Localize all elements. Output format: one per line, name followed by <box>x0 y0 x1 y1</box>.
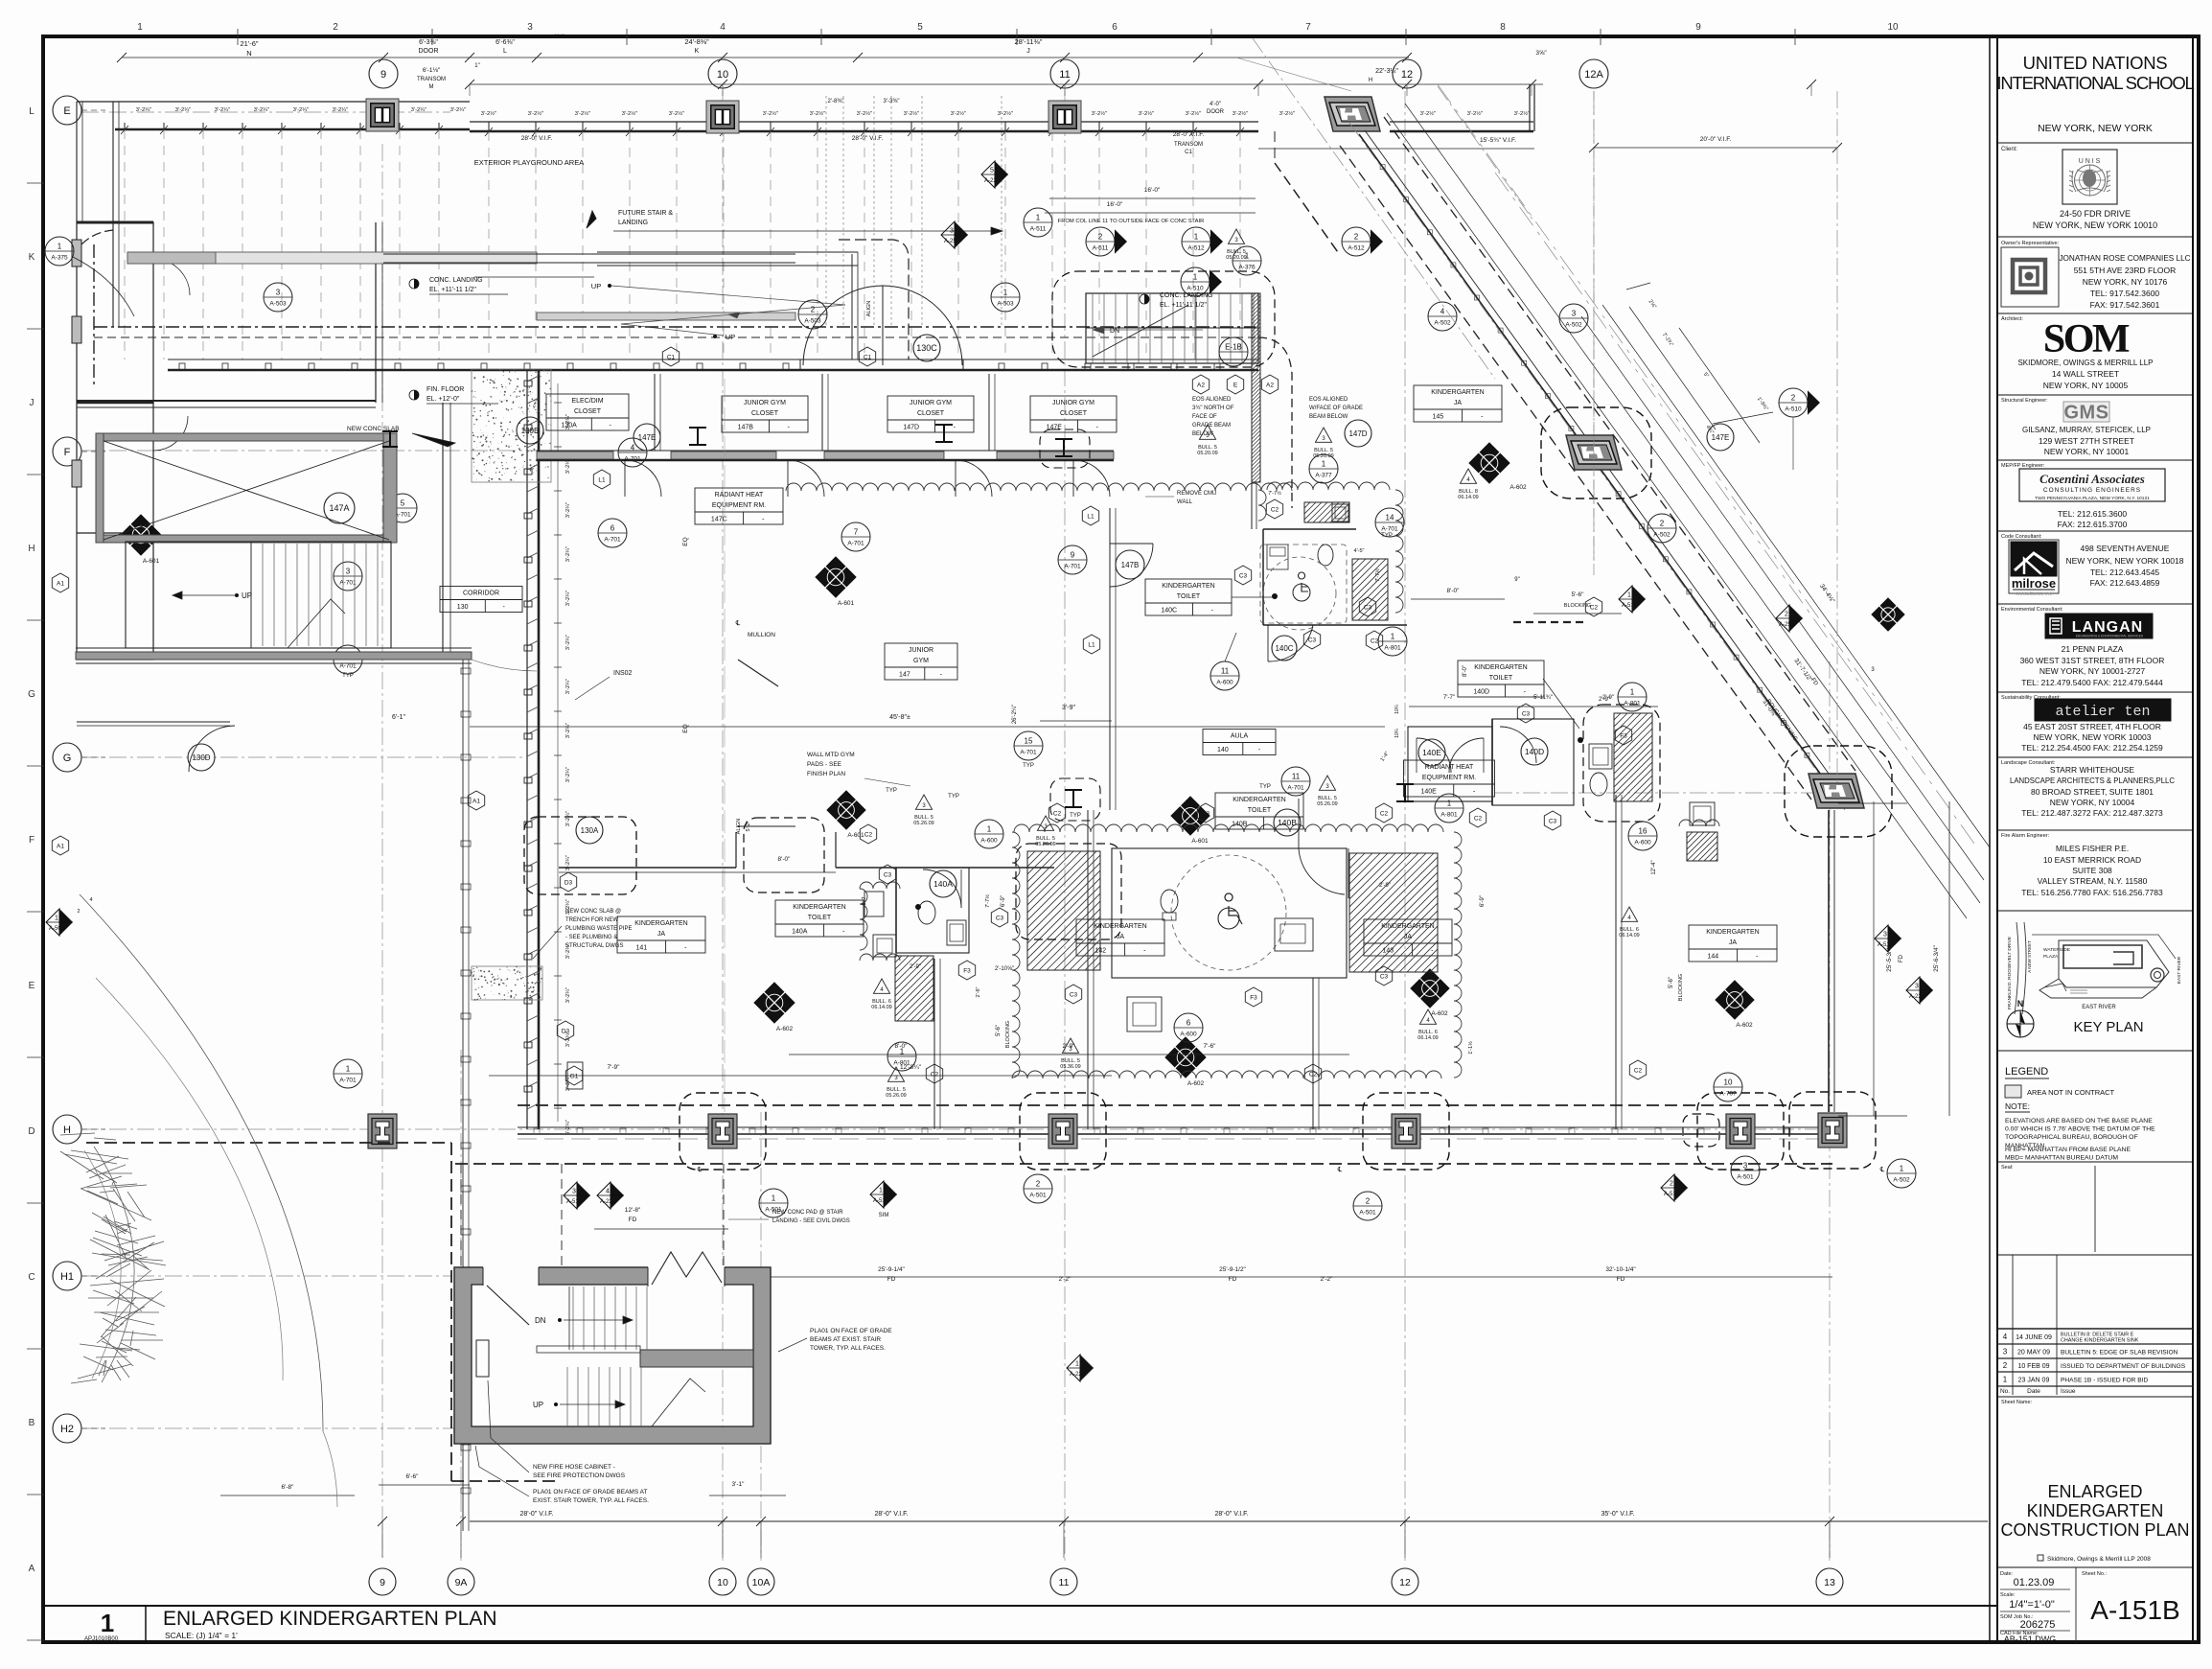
svg-text:MEP/FP Engineer:: MEP/FP Engineer: <box>2001 463 2045 469</box>
svg-text:NEW CONC PAD @ STAIR: NEW CONC PAD @ STAIR <box>772 1210 843 1216</box>
svg-text:C1: C1 <box>864 354 872 360</box>
svg-text:SOM: SOM <box>2043 317 2130 361</box>
svg-text:05.20.09: 05.20.09 <box>1226 255 1246 261</box>
svg-text:FAX: 212.615.3700: FAX: 212.615.3700 <box>2058 520 2128 529</box>
svg-text:06.14.09: 06.14.09 <box>1458 495 1478 500</box>
svg-text:1: 1 <box>1322 460 1326 469</box>
svg-text:A-601: A-601 <box>143 558 160 565</box>
svg-text:SIM: SIM <box>879 1213 889 1218</box>
svg-text:EQUIPMENT RM.: EQUIPMENT RM. <box>712 502 766 509</box>
svg-text:16'-0": 16'-0" <box>1107 201 1123 208</box>
svg-text:5: 5 <box>401 499 405 508</box>
svg-text:W/FACE OF GRADE: W/FACE OF GRADE <box>1309 406 1363 411</box>
svg-text:TEL: 212.643.4545: TEL: 212.643.4545 <box>2090 568 2160 577</box>
svg-text:360 WEST 31ST STREET, 8TH FLOO: 360 WEST 31ST STREET, 8TH FLOOR <box>2020 656 2165 665</box>
svg-text:45'-8"±: 45'-8"± <box>889 714 910 721</box>
svg-text:A-510: A-510 <box>1187 286 1204 292</box>
svg-text:A-701: A-701 <box>339 1078 357 1084</box>
svg-text:21 PENN PLAZA: 21 PENN PLAZA <box>2062 644 2124 654</box>
svg-text:147D: 147D <box>903 425 919 431</box>
svg-text:UP: UP <box>242 591 252 600</box>
svg-text:NEW YORK, NEW YORK 10018: NEW YORK, NEW YORK 10018 <box>2066 556 2184 566</box>
svg-text:DN: DN <box>1110 328 1119 335</box>
svg-text:PLAZA: PLAZA <box>2043 954 2059 960</box>
svg-text:FUTURE STAIR &: FUTURE STAIR & <box>618 210 673 217</box>
svg-text:2: 2 <box>2003 1361 2008 1370</box>
svg-text:12: 12 <box>1399 1577 1411 1588</box>
svg-text:A-221: A-221 <box>984 178 1001 184</box>
svg-text:SUITE 308: SUITE 308 <box>2072 866 2112 875</box>
svg-text:28'-0" V.I.F.: 28'-0" V.I.F. <box>519 1511 553 1518</box>
svg-text:F3: F3 <box>963 967 971 974</box>
svg-text:26'-2¼": 26'-2¼" <box>1012 705 1018 724</box>
svg-text:12'-8¼": 12'-8¼" <box>900 1064 922 1071</box>
svg-text:147: 147 <box>899 672 910 679</box>
svg-text:A2: A2 <box>1266 382 1274 388</box>
svg-text:N: N <box>246 49 251 58</box>
svg-text:9A: 9A <box>455 1577 468 1588</box>
svg-text:TRANSOM: TRANSOM <box>1174 142 1203 148</box>
svg-text:130D: 130D <box>192 753 210 762</box>
svg-text:Date:: Date: <box>2000 1571 2014 1577</box>
svg-text:3'-2¼": 3'-2¼" <box>565 679 571 694</box>
svg-text:10A: 10A <box>752 1577 771 1588</box>
svg-text:2: 2 <box>1366 1197 1371 1206</box>
svg-text:3'-2¼": 3'-2¼" <box>175 107 191 113</box>
svg-text:05.26.09: 05.26.09 <box>886 1093 906 1099</box>
svg-text:REMOVE CMU: REMOVE CMU <box>1177 491 1216 497</box>
svg-text:35'-0" V.I.F.: 35'-0" V.I.F. <box>1601 1511 1634 1518</box>
svg-text:3: 3 <box>346 568 351 576</box>
svg-text:PADS - SEE: PADS - SEE <box>807 761 842 768</box>
svg-text:TYP: TYP <box>948 794 959 800</box>
svg-text:130A: 130A <box>581 826 599 835</box>
svg-text:A-600: A-600 <box>1634 840 1651 846</box>
svg-text:3'-2¼": 3'-2¼" <box>411 107 426 113</box>
svg-text:1: 1 <box>58 243 62 251</box>
svg-text:WALL: WALL <box>1177 499 1193 505</box>
svg-text:1: 1 <box>1447 800 1452 808</box>
svg-text:A1: A1 <box>57 580 64 587</box>
svg-text:C3: C3 <box>1308 637 1317 643</box>
svg-text:APJ1010B00: APJ1010B00 <box>84 1636 119 1642</box>
svg-text:141: 141 <box>635 945 647 952</box>
svg-text:4: 4 <box>89 897 92 903</box>
svg-text:6: 6 <box>1187 1019 1191 1028</box>
svg-text:NEW YORK, NY 10004: NEW YORK, NY 10004 <box>2050 798 2135 807</box>
svg-text:3'-2½": 3'-2½" <box>481 110 496 117</box>
svg-text:C2: C2 <box>864 831 873 838</box>
svg-text:1'-1½: 1'-1½ <box>1467 1041 1474 1055</box>
svg-text:4: 4 <box>720 22 726 33</box>
svg-text:A-701: A-701 <box>604 537 621 544</box>
svg-text:A-701: A-701 <box>339 580 357 587</box>
svg-text:A-221: A-221 <box>1909 994 1925 1000</box>
svg-text:KINDERGARTEN: KINDERGARTEN <box>1381 923 1435 930</box>
svg-text:SKIDMORE, OWINGS & MERRILL LLP: SKIDMORE, OWINGS & MERRILL LLP <box>2017 359 2153 367</box>
svg-text:L: L <box>29 106 35 117</box>
svg-text:CLOSET: CLOSET <box>1060 410 1088 417</box>
svg-text:2: 2 <box>1791 394 1796 403</box>
svg-text:C2: C2 <box>1309 1071 1318 1078</box>
svg-text:BLOCKING: BLOCKING <box>1678 974 1684 1001</box>
svg-text:3⅝": 3⅝" <box>1535 50 1547 57</box>
svg-text:AB-151.DWG: AB-151.DWG <box>2004 1634 2057 1644</box>
svg-text:A1: A1 <box>472 798 480 804</box>
svg-text:01.23.09: 01.23.09 <box>2014 1577 2055 1588</box>
svg-text:A-376: A-376 <box>1238 265 1256 271</box>
svg-text:INS02: INS02 <box>613 670 633 677</box>
svg-text:147C: 147C <box>711 517 727 523</box>
svg-text:RADIANT HEAT: RADIANT HEAT <box>715 492 764 498</box>
svg-text:A-512: A-512 <box>1878 942 1894 948</box>
svg-text:A NEW STREET: A NEW STREET <box>2027 940 2032 973</box>
svg-text:GYM: GYM <box>913 658 929 664</box>
svg-text:A-70?: A-70? <box>1719 1091 1737 1098</box>
svg-text:05.20.09: 05.20.09 <box>1313 453 1333 459</box>
svg-text:3'-2½": 3'-2½" <box>669 110 684 117</box>
svg-text:A-512: A-512 <box>1187 245 1205 252</box>
svg-text:CONSTRUCTION PLAN: CONSTRUCTION PLAN <box>2000 1520 2189 1540</box>
svg-text:145: 145 <box>1432 414 1443 421</box>
svg-text:STARR WHITEHOUSE: STARR WHITEHOUSE <box>2050 765 2134 775</box>
svg-text:C3: C3 <box>1522 710 1531 717</box>
svg-text:3'-2½": 3'-2½" <box>1233 110 1248 117</box>
svg-text:06.14.09: 06.14.09 <box>871 1005 891 1010</box>
svg-text:45 EAST 20ST STREET, 4TH FLOOR: 45 EAST 20ST STREET, 4TH FLOOR <box>2023 722 2161 731</box>
svg-text:BELOW: BELOW <box>1192 431 1213 437</box>
svg-text:A-513: A-513 <box>566 1199 583 1205</box>
svg-text:12: 12 <box>1401 69 1413 81</box>
svg-text:10: 10 <box>717 69 728 81</box>
svg-text:Sheet No.:: Sheet No.: <box>2082 1571 2107 1577</box>
svg-text:3'-2¼": 3'-2¼" <box>450 107 466 113</box>
svg-text:JA: JA <box>1454 400 1463 406</box>
svg-text:DOOR: DOOR <box>1207 109 1225 115</box>
svg-text:C2: C2 <box>1590 604 1599 611</box>
svg-text:129 WEST 27TH STREET: 129 WEST 27TH STREET <box>2039 436 2134 446</box>
svg-text:140E: 140E <box>1420 789 1437 796</box>
svg-text:2'-9": 2'-9" <box>1379 883 1391 889</box>
svg-text:2: 2 <box>1354 233 1359 242</box>
svg-text:KINDERGARTEN: KINDERGARTEN <box>634 920 688 927</box>
svg-text:A-501: A-501 <box>1029 1193 1047 1199</box>
svg-text:28'-0" V.I.F.: 28'-0" V.I.F. <box>521 135 553 142</box>
svg-text:Structural Engineer:: Structural Engineer: <box>2001 398 2048 404</box>
svg-text:TOILET: TOILET <box>1177 593 1201 600</box>
svg-text:2'-2": 2'-2" <box>1059 1276 1072 1283</box>
svg-text:TYP: TYP <box>1259 784 1271 790</box>
svg-text:AREA NOT IN CONTRACT: AREA NOT IN CONTRACT <box>2027 1088 2115 1097</box>
svg-text:8'-0": 8'-0" <box>778 856 792 863</box>
svg-text:TRENCH FOR NEW: TRENCH FOR NEW <box>565 917 618 923</box>
svg-text:NEW CONC SLAB @: NEW CONC SLAB @ <box>565 909 621 915</box>
svg-text:CONC. LANDING: CONC. LANDING <box>1160 292 1213 299</box>
svg-text:FD: FD <box>1617 1276 1625 1283</box>
svg-text:A-375: A-375 <box>51 255 68 262</box>
svg-text:ELEC/DIM: ELEC/DIM <box>571 398 603 405</box>
svg-text:FD: FD <box>887 1276 896 1283</box>
svg-text:F3: F3 <box>1620 732 1627 739</box>
svg-text:ALIGN: ALIGN <box>866 301 872 317</box>
svg-text:K: K <box>29 252 35 263</box>
svg-text:A-701: A-701 <box>624 456 641 463</box>
svg-text:Seal:: Seal: <box>2001 1165 2014 1171</box>
svg-text:3'-2¼": 3'-2¼" <box>565 546 571 562</box>
svg-text:EAST RIVER: EAST RIVER <box>2082 1005 2116 1010</box>
svg-text:A-503: A-503 <box>269 301 287 308</box>
svg-text:2: 2 <box>333 22 338 33</box>
svg-text:A-511: A-511 <box>1030 226 1047 233</box>
svg-text:TEL: 516.256.7780 FAX: 516.25: TEL: 516.256.7780 FAX: 516.256.7783 <box>2021 888 2163 897</box>
svg-text:3: 3 <box>2003 1348 2008 1356</box>
svg-text:U N I S: U N I S <box>2079 158 2101 165</box>
svg-text:H2: H2 <box>60 1424 74 1435</box>
svg-text:EOS ALIGNED: EOS ALIGNED <box>1192 397 1232 403</box>
svg-text:21'-6": 21'-6" <box>240 39 258 48</box>
svg-text:3: 3 <box>572 1189 576 1195</box>
svg-text:1: 1 <box>1391 633 1395 641</box>
svg-text:A-513: A-513 <box>1622 603 1638 609</box>
svg-text:4'-5": 4'-5" <box>1354 548 1365 554</box>
svg-text:14 WALL STREET: 14 WALL STREET <box>2052 369 2119 379</box>
svg-text:A-512: A-512 <box>1348 245 1365 252</box>
svg-text:A: A <box>29 1564 35 1574</box>
svg-text:7'-6": 7'-6" <box>1204 1043 1217 1050</box>
svg-text:Cosentini Associates: Cosentini Associates <box>2039 472 2145 486</box>
svg-text:atelier ten: atelier ten <box>2055 704 2150 720</box>
svg-text:144: 144 <box>1707 954 1718 961</box>
svg-text:3'-2¼": 3'-2¼" <box>565 811 571 826</box>
svg-text:140: 140 <box>1217 747 1229 753</box>
svg-text:147E: 147E <box>1712 433 1730 442</box>
svg-text:10¼: 10¼ <box>1394 704 1400 714</box>
svg-text:142: 142 <box>1094 948 1106 955</box>
svg-text:EL. +11'-11 1/2": EL. +11'-11 1/2" <box>1160 302 1207 309</box>
svg-text:FD: FD <box>1899 954 1904 962</box>
svg-text:1: 1 <box>1245 252 1250 261</box>
svg-text:C: C <box>28 1272 35 1283</box>
svg-text:LANDSCAPE ARCHITECTS & PLANNER: LANDSCAPE ARCHITECTS & PLANNERS,PLLC <box>2010 777 2175 785</box>
svg-text:℄: ℄ <box>697 1167 703 1173</box>
svg-text:H: H <box>1369 78 1372 83</box>
svg-text:FAX: 212.643.4859: FAX: 212.643.4859 <box>2090 578 2160 588</box>
svg-text:9: 9 <box>380 69 386 81</box>
svg-text:06.14.09: 06.14.09 <box>1619 933 1639 939</box>
svg-text:2: 2 <box>1660 520 1665 528</box>
svg-text:3'-2¼": 3'-2¼" <box>293 107 309 113</box>
svg-text:A-510: A-510 <box>1785 406 1802 413</box>
svg-text:L: L <box>503 48 507 55</box>
svg-text:130: 130 <box>457 604 469 611</box>
svg-text:CLOSET: CLOSET <box>574 408 602 415</box>
svg-text:Skidmore, Owings & Merrill LLP: Skidmore, Owings & Merrill LLP 2008 <box>2047 1556 2151 1563</box>
svg-text:9": 9" <box>1514 577 1519 583</box>
svg-text:7: 7 <box>854 528 859 537</box>
svg-text:6: 6 <box>1112 22 1118 33</box>
svg-text:A-501: A-501 <box>1737 1174 1754 1181</box>
svg-text:EQUIPMENT RM.: EQUIPMENT RM. <box>1422 775 1476 781</box>
svg-text:AULA: AULA <box>1231 733 1249 740</box>
svg-text:C1: C1 <box>667 354 676 360</box>
svg-text:14 JUNE 09: 14 JUNE 09 <box>2016 1334 2052 1341</box>
svg-text:BEAMS AT EXIST. STAIR: BEAMS AT EXIST. STAIR <box>810 1336 881 1343</box>
svg-text:Sheet Name:: Sheet Name: <box>2001 1400 2033 1405</box>
svg-text:Owner's Representative:: Owner's Representative: <box>2001 241 2060 246</box>
svg-text:1: 1 <box>987 825 992 834</box>
svg-text:10: 10 <box>717 1577 728 1588</box>
svg-text:PLA01 ON FACE OF GRADE BEAMS A: PLA01 ON FACE OF GRADE BEAMS AT <box>533 1489 647 1495</box>
svg-text:FD: FD <box>1229 1276 1237 1283</box>
svg-text:2'-10⅝": 2'-10⅝" <box>995 966 1014 972</box>
svg-text:1: 1 <box>2003 1376 2008 1384</box>
svg-text:SEE FIRE PROTECTION DWGS: SEE FIRE PROTECTION DWGS <box>533 1472 626 1479</box>
svg-text:N: N <box>2017 999 2024 1008</box>
svg-text:KINDERGARTEN: KINDERGARTEN <box>1706 929 1760 936</box>
svg-text:MBD= MANHATTAN BUREAU DATUM: MBD= MANHATTAN BUREAU DATUM <box>2005 1155 2118 1162</box>
svg-text:FRANKLIN D. ROOSEVELT DRIVE: FRANKLIN D. ROOSEVELT DRIVE <box>2007 937 2013 1009</box>
svg-text:20 MAY 09: 20 MAY 09 <box>2017 1350 2050 1356</box>
svg-text:130B: 130B <box>521 427 540 435</box>
svg-text:KINDERGARTEN: KINDERGARTEN <box>1474 664 1528 671</box>
svg-text:VALLEY STREAM, N.Y. 11580: VALLEY STREAM, N.Y. 11580 <box>2038 876 2148 886</box>
svg-text:H1: H1 <box>60 1271 74 1283</box>
svg-text:A-602: A-602 <box>1187 1080 1205 1087</box>
svg-text:E: E <box>63 105 70 117</box>
svg-text:KINDERGARTEN: KINDERGARTEN <box>1094 923 1147 930</box>
svg-text:3'-2½": 3'-2½" <box>1514 110 1530 117</box>
svg-text:3'-2½": 3'-2½" <box>951 110 966 117</box>
svg-text:A-221: A-221 <box>600 1199 616 1205</box>
svg-text:KINDERGARTEN: KINDERGARTEN <box>1233 797 1286 803</box>
svg-text:A-502: A-502 <box>49 926 65 932</box>
svg-text:10¼: 10¼ <box>1394 728 1400 738</box>
svg-text:JONATHAN ROSE COMPANIES LLC: JONATHAN ROSE COMPANIES LLC <box>2059 254 2190 263</box>
svg-text:CLOSET: CLOSET <box>751 410 779 417</box>
svg-text:EOS ALIGNED: EOS ALIGNED <box>1309 397 1348 403</box>
svg-text:JA: JA <box>657 931 666 938</box>
svg-text:FACE OF: FACE OF <box>1192 414 1217 420</box>
svg-text:TOILET: TOILET <box>1248 807 1272 814</box>
svg-text:NEW YORK, NY 10001: NEW YORK, NY 10001 <box>2044 447 2130 456</box>
svg-text:1: 1 <box>1075 1361 1079 1368</box>
svg-text:11: 11 <box>1059 69 1070 81</box>
svg-text:TEL: 212.254.4500 FAX: 212.25: TEL: 212.254.4500 FAX: 212.254.1259 <box>2021 743 2163 753</box>
svg-text:E: E <box>1233 382 1238 388</box>
svg-text:FINISH PLAN: FINISH PLAN <box>807 771 845 777</box>
svg-text:Architect:: Architect: <box>2001 316 2023 322</box>
svg-text:130C: 130C <box>916 343 937 353</box>
svg-text:A-701: A-701 <box>1020 750 1037 756</box>
svg-text:A-701: A-701 <box>1287 785 1304 792</box>
svg-text:RADIANT HEAT: RADIANT HEAT <box>1425 764 1474 771</box>
svg-text:80 BROAD STREET, SUITE 1801: 80 BROAD STREET, SUITE 1801 <box>2031 787 2154 797</box>
svg-text:Scale:: Scale: <box>2000 1592 2016 1598</box>
svg-text:A-502: A-502 <box>1434 320 1451 327</box>
svg-text:Landscape Consultant:: Landscape Consultant: <box>2001 760 2056 766</box>
svg-text:C2: C2 <box>1053 810 1062 817</box>
svg-text:L1: L1 <box>1088 641 1095 648</box>
svg-text:05.36.09: 05.36.09 <box>1060 1064 1080 1070</box>
svg-text:NEW YORK, NEW YORK 10003: NEW YORK, NEW YORK 10003 <box>2034 732 2152 742</box>
svg-text:05.26.09: 05.26.09 <box>1035 842 1055 847</box>
svg-text:6'-3⅜": 6'-3⅜" <box>419 39 438 46</box>
svg-text:1: 1 <box>1194 233 1199 242</box>
svg-text:NEW FIRE HOSE CABINET -: NEW FIRE HOSE CABINET - <box>533 1464 615 1471</box>
svg-text:FAX: 917.542.3601: FAX: 917.542.3601 <box>2090 300 2160 310</box>
svg-text:L1: L1 <box>1087 513 1094 520</box>
svg-text:25'-6-3/4": 25'-6-3/4" <box>1933 944 1940 971</box>
svg-text:Code Consultant:: Code Consultant: <box>2001 534 2042 540</box>
svg-text:24-50 FDR DRIVE: 24-50 FDR DRIVE <box>2060 209 2131 219</box>
svg-text:A2: A2 <box>1197 382 1205 388</box>
svg-text:PLA01 ON FACE OF GRADE: PLA01 ON FACE OF GRADE <box>810 1328 892 1334</box>
svg-text:3: 3 <box>1915 984 1919 990</box>
svg-text:TOILET: TOILET <box>808 915 832 921</box>
svg-text:KINDERGARTEN: KINDERGARTEN <box>793 904 846 911</box>
svg-text:2'-8⅜": 2'-8⅜" <box>828 99 844 104</box>
svg-text:25'-9-1/4": 25'-9-1/4" <box>878 1266 905 1273</box>
svg-text:TEL: 917.542.3600: TEL: 917.542.3600 <box>2090 289 2160 298</box>
svg-text:24'-8⅜": 24'-8⅜" <box>684 37 709 46</box>
svg-text:H: H <box>28 544 35 554</box>
svg-text:G: G <box>28 689 35 700</box>
svg-text:D3: D3 <box>565 879 573 886</box>
svg-text:140E: 140E <box>1422 748 1441 757</box>
svg-text:3'-2¼": 3'-2¼" <box>215 107 230 113</box>
svg-text:9: 9 <box>380 1577 385 1588</box>
svg-text:3'-9": 3'-9" <box>1062 705 1075 711</box>
svg-text:28'-0" V.I.F.: 28'-0" V.I.F. <box>852 135 884 142</box>
svg-text:143: 143 <box>1382 948 1394 955</box>
svg-text:1: 1 <box>1630 688 1635 697</box>
svg-text:WATERSIDE: WATERSIDE <box>2043 947 2070 953</box>
svg-text:5'-6": 5'-6" <box>1669 977 1674 988</box>
svg-text:FROM COL LINE 11 TO OUTSIDE FA: FROM COL LINE 11 TO OUTSIDE FACE OF CONC… <box>1058 219 1205 224</box>
svg-text:NEW YORK, NEW YORK 10010: NEW YORK, NEW YORK 10010 <box>2033 220 2157 230</box>
svg-text:CLOSET: CLOSET <box>917 410 945 417</box>
svg-text:BULLETIN 5: EDGE OF SLAB REVIS: BULLETIN 5: EDGE OF SLAB REVISION <box>2061 1350 2178 1356</box>
svg-text:2: 2 <box>1036 1180 1041 1189</box>
svg-text:CHANGE KINDERGARTEN SINK: CHANGE KINDERGARTEN SINK <box>2061 1338 2139 1344</box>
svg-text:EXTERIOR PLAYGROUND AREA: EXTERIOR PLAYGROUND AREA <box>474 158 584 167</box>
svg-text:147B: 147B <box>738 425 754 431</box>
svg-text:No.: No. <box>2000 1388 2010 1395</box>
svg-text:140D: 140D <box>1525 747 1544 756</box>
svg-text:F: F <box>64 447 71 458</box>
svg-text:TRANSOM: TRANSOM <box>417 77 446 82</box>
svg-text:4⅝": 4⅝" <box>553 34 565 40</box>
svg-text:1: 1 <box>346 1065 351 1074</box>
svg-text:11: 11 <box>1059 1577 1070 1588</box>
svg-text:DN: DN <box>535 1316 546 1325</box>
svg-text:C3: C3 <box>996 915 1004 921</box>
svg-text:10 FEB 09: 10 FEB 09 <box>2017 1363 2049 1370</box>
svg-text:A-801: A-801 <box>1440 812 1458 819</box>
svg-text:8'-0": 8'-0" <box>1463 665 1468 677</box>
svg-text:TYP: TYP <box>342 673 354 679</box>
svg-text:LANDING: LANDING <box>618 220 648 226</box>
svg-text:TYP: TYP <box>1023 763 1034 769</box>
svg-text:C3: C3 <box>1364 604 1372 611</box>
svg-text:MILES FISHER P.E.: MILES FISHER P.E. <box>2056 844 2129 853</box>
svg-text:WALL MTD GYM: WALL MTD GYM <box>807 752 855 758</box>
svg-text:7: 7 <box>1305 22 1311 33</box>
svg-text:4: 4 <box>1440 308 1445 316</box>
svg-text:2'-9": 2'-9" <box>910 964 921 970</box>
svg-text:℄: ℄ <box>1879 1167 1885 1173</box>
svg-text:3'-2¼": 3'-2¼" <box>565 635 571 650</box>
